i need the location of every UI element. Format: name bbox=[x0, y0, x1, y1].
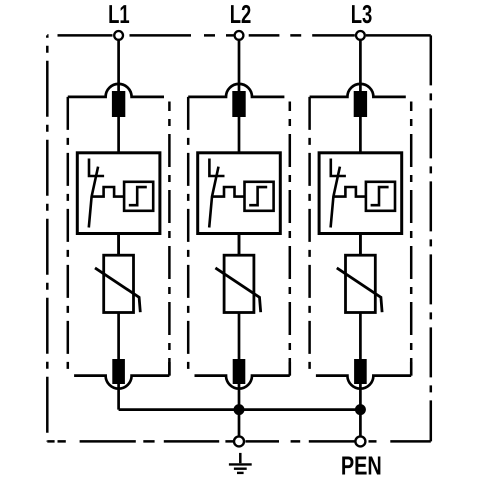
protection module 1 boundary left (dash-dot) bbox=[67, 97, 70, 376]
indicator step symbol module 1 bbox=[129, 187, 147, 205]
PEN terminal circle bbox=[355, 436, 365, 446]
phase L1 column bbox=[68, 0, 170, 410]
disconnector fixed contact lead module 2 (L-shape) bbox=[209, 159, 224, 177]
disconnector signal square-wave link module 3 bbox=[334, 187, 366, 197]
upper plug contact module 1 (solid block) bbox=[112, 91, 125, 117]
svg-text:L2: L2 bbox=[230, 0, 252, 29]
wire L3 vertical bbox=[359, 39, 362, 409]
protection module 3 boundary bottom with plug arc bbox=[316, 376, 411, 389]
indicator step symbol module 2 bbox=[249, 187, 267, 205]
disconnector switch blade module 2 bbox=[209, 167, 218, 228]
lower plug contact module 1 (solid block) bbox=[112, 359, 125, 384]
varistor module 1 diagonal stroke bbox=[95, 268, 140, 312]
wire module 3 disconnector to varistor bbox=[359, 234, 362, 256]
disconnector switch blade module 1 bbox=[89, 167, 98, 228]
wire bus to PEN terminal bbox=[359, 410, 362, 436]
phase L3 column bbox=[310, 0, 412, 410]
lower plug contact module 2 (solid block) bbox=[233, 359, 246, 384]
disconnector signal square-wave link module 1 bbox=[92, 187, 124, 197]
upper plug contact module 2 (solid block) bbox=[232, 91, 245, 117]
earth terminal circle bbox=[234, 436, 244, 446]
protection module 2 boundary left (dash-dot) bbox=[187, 97, 190, 376]
terminal L2 bbox=[235, 31, 244, 40]
monitoring indicator inner box module 2 bbox=[245, 182, 274, 211]
varistor module 3 diagonal stroke bbox=[337, 268, 382, 312]
protection module 2 boundary top with plug arc bbox=[188, 84, 284, 97]
protection module 1 boundary right (dash-dot) bbox=[168, 102, 171, 376]
thermal disconnector / monitoring unit module 2 box bbox=[198, 153, 281, 234]
wire module 1 disconnector to varistor bbox=[117, 234, 120, 256]
protection module 3 boundary top with plug arc bbox=[310, 84, 406, 97]
junction node bus/earth bbox=[234, 404, 245, 415]
varistor module 3 body bbox=[346, 255, 376, 312]
ground symbol stem bbox=[239, 453, 242, 463]
ground symbol bar 3 bbox=[237, 472, 244, 474]
terminal L3 bbox=[356, 31, 365, 40]
device enclosure border right (dash-dot) bbox=[430, 35, 433, 441]
varistor module 2 diagonal stroke bbox=[215, 268, 260, 312]
terminal L1 bbox=[114, 31, 123, 40]
thermal disconnector / monitoring unit module 3 box bbox=[319, 153, 402, 234]
junction node bus/PEN bbox=[355, 404, 366, 415]
monitoring indicator inner box module 3 bbox=[366, 182, 395, 211]
disconnector fixed contact lead module 1 (L-shape) bbox=[89, 159, 104, 177]
varistor module 1 body bbox=[104, 255, 134, 312]
thermal disconnector / monitoring unit module 1 box bbox=[77, 153, 160, 234]
lower plug contact module 3 (solid block) bbox=[354, 359, 367, 384]
varistor module 2 body bbox=[224, 255, 254, 312]
device enclosure border left (dash-dot) bbox=[46, 35, 49, 441]
device enclosure border top (dash-dot) bbox=[47, 34, 431, 37]
PE collecting bus wire bbox=[119, 408, 361, 411]
protection module 1 boundary top with plug arc bbox=[68, 84, 164, 97]
protection module 2 boundary bottom-right corner stub bbox=[289, 362, 292, 376]
indicator step symbol module 3 bbox=[371, 187, 389, 205]
svg-text:L1: L1 bbox=[108, 0, 130, 29]
ground symbol bar 1 bbox=[229, 463, 252, 465]
monitoring indicator inner box module 1 bbox=[124, 182, 153, 211]
disconnector switch blade module 3 bbox=[331, 167, 340, 228]
protection module 1 boundary bottom with plug arc bbox=[74, 376, 169, 389]
disconnector signal square-wave link module 2 bbox=[213, 187, 245, 197]
protection module 2 boundary right (dash-dot) bbox=[289, 102, 292, 376]
protection module 2 boundary bottom with plug arc bbox=[195, 376, 290, 389]
protection module 3 boundary bottom-right corner stub bbox=[410, 362, 413, 376]
svg-text:PEN: PEN bbox=[341, 450, 382, 480]
disconnector fixed contact lead module 3 (L-shape) bbox=[331, 159, 346, 177]
protection module 3 boundary right (dash-dot) bbox=[410, 102, 413, 376]
upper plug contact module 3 (solid block) bbox=[354, 91, 367, 117]
wire bus to earth terminal bbox=[238, 410, 241, 436]
wire L1 vertical bbox=[117, 39, 120, 409]
phase L2 column bbox=[188, 0, 290, 410]
svg-text:L3: L3 bbox=[351, 0, 373, 29]
ground symbol bar 2 bbox=[234, 468, 247, 470]
wire module 2 disconnector to varistor bbox=[238, 234, 241, 256]
device enclosure border bottom (dash-dot) bbox=[47, 440, 431, 443]
protection module 1 boundary bottom-right corner stub bbox=[168, 362, 171, 376]
protection module 3 boundary left (dash-dot) bbox=[308, 97, 311, 376]
wire L2 vertical bbox=[238, 39, 241, 409]
